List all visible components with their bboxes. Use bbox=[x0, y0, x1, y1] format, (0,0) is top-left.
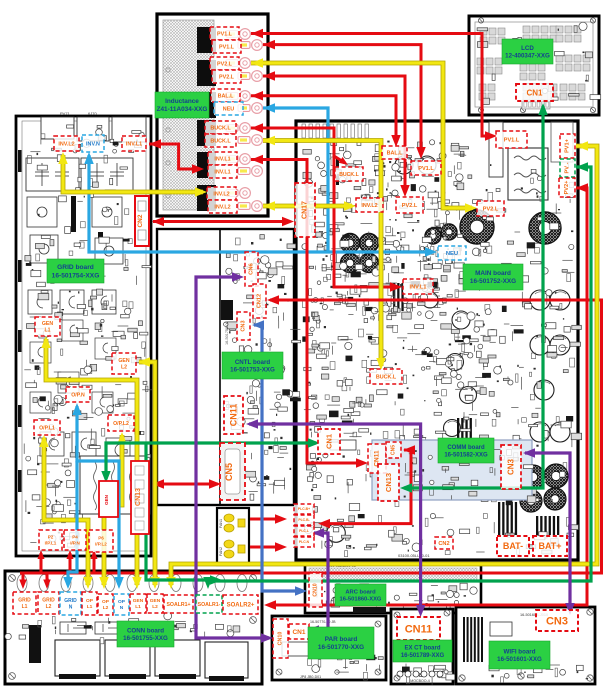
COMM board green label bbox=[438, 438, 494, 463]
svg-text:OP: OP bbox=[102, 599, 110, 605]
svg-text:CN11: CN11 bbox=[229, 404, 239, 427]
wire GRID O/P.N to CONN OP N and GRID N cyan bbox=[77, 406, 119, 585]
wire GRID O/P.L2 to CONN OP L2 yellow bbox=[104, 435, 122, 585]
COMM board connector CN3 bbox=[501, 445, 521, 489]
svg-text:CNTL board: CNTL board bbox=[235, 359, 271, 366]
MAIN board electrolytic capacitors bbox=[530, 290, 550, 310]
inductance labels INV.L1 pair bbox=[208, 152, 237, 165]
CONN board outline 16-501755-XXG bbox=[5, 571, 262, 684]
svg-text:CN6: CN6 bbox=[249, 262, 255, 274]
MAIN board barcode bars bbox=[498, 502, 500, 535]
inductance ring terminals bbox=[226, 31, 238, 38]
svg-text:16-501752-XXG: 16-501752-XXG bbox=[470, 278, 516, 285]
svg-text:PV2.L: PV2.L bbox=[217, 61, 233, 67]
svg-text:CN3: CN3 bbox=[507, 458, 516, 475]
svg-text:PLC.L: PLC.L bbox=[299, 529, 309, 533]
svg-text:GRID: GRID bbox=[42, 598, 55, 604]
FAN connector box bbox=[217, 508, 249, 565]
svg-text:12-400347-XXG: 12-400347-XXG bbox=[505, 53, 550, 60]
CONN board label OP N bbox=[114, 594, 129, 615]
svg-text:16-501755-XXG: 16-501755-XXG bbox=[123, 635, 168, 642]
wire CNTL CN12 to right side red bbox=[20, 300, 602, 573]
inductance labels BUCK.L pair bbox=[205, 121, 236, 134]
GRID board label O/P.N bbox=[66, 387, 90, 402]
svg-text:I/P.N: I/P.N bbox=[70, 541, 80, 546]
svg-text:GRID board: GRID board bbox=[57, 264, 94, 271]
wire BUCK.L terminal-a to main BUCK.L and main INV.L1 red bbox=[251, 128, 398, 287]
MAIN board transformer bbox=[508, 148, 548, 200]
svg-text:L2: L2 bbox=[152, 604, 158, 610]
svg-text:L1: L1 bbox=[44, 328, 50, 334]
svg-text:BAT+: BAT+ bbox=[538, 541, 561, 551]
wire FAN1 to main red bbox=[250, 518, 283, 521]
MAIN board heatsink slots top bbox=[302, 124, 305, 138]
LCD connector CN1 bbox=[516, 84, 553, 101]
svg-text:PV1.L: PV1.L bbox=[504, 137, 520, 143]
ARC board green label bbox=[335, 584, 386, 606]
GRID board connector CN2 bbox=[135, 196, 149, 246]
MAIN board label PV1+ bbox=[560, 134, 575, 158]
wire CNTL CN3 to ARC CN10 steel blue bbox=[254, 325, 303, 591]
svg-text:INV.L1: INV.L1 bbox=[214, 156, 230, 162]
svg-text:L2: L2 bbox=[103, 605, 109, 611]
svg-text:CN5: CN5 bbox=[224, 463, 234, 481]
MAIN board green label bbox=[463, 264, 523, 290]
GRID board outline 16-501754-XXG bbox=[16, 116, 151, 556]
svg-text:GEN: GEN bbox=[118, 358, 129, 364]
svg-text:PV1.L: PV1.L bbox=[418, 166, 434, 172]
svg-text:L2: L2 bbox=[46, 604, 52, 610]
svg-text:BUCK.L: BUCK.L bbox=[376, 374, 397, 380]
svg-text:16-501754-XXG: 16-501754-XXG bbox=[52, 272, 100, 279]
MAIN board label PV2.L b bbox=[477, 201, 504, 216]
svg-text:INV.N: INV.N bbox=[86, 141, 100, 147]
wire NEU net cyan bbox=[263, 108, 328, 252]
wire GRID CN2 to main CN17 red bbox=[153, 220, 290, 223]
CONN board label SOALR1+ bbox=[164, 595, 193, 613]
wire CNTL CN11 to EX CT CN11 purple bbox=[249, 424, 421, 613]
svg-text:16-50770-00 JB: 16-50770-00 JB bbox=[310, 620, 336, 624]
svg-text:L2: L2 bbox=[121, 365, 127, 371]
MAIN board label BAL.L bbox=[382, 146, 407, 159]
svg-text:INV.L1: INV.L1 bbox=[214, 169, 230, 175]
svg-text:SOALR2+: SOALR2+ bbox=[227, 603, 255, 609]
svg-text:NEU: NEU bbox=[223, 106, 234, 112]
svg-text:16-501753-00: 16-501753-00 bbox=[225, 321, 229, 345]
CNTL board connector CN5 bbox=[220, 443, 245, 500]
svg-text:INV.L2: INV.L2 bbox=[214, 204, 230, 210]
svg-text:INV.L1: INV.L1 bbox=[410, 284, 427, 290]
svg-text:PLC.N: PLC.N bbox=[299, 540, 310, 544]
wire LCD CN1 to COMM CN13 green bbox=[404, 106, 543, 488]
svg-text:16-501770-XXG: 16-501770-XXG bbox=[318, 644, 364, 651]
CONN board label SOALR1- bbox=[196, 595, 222, 613]
svg-text:16-501601-XXG: 16-501601-XXG bbox=[497, 656, 542, 663]
svg-text:PV2.L: PV2.L bbox=[402, 203, 418, 209]
GRID board label GEN L1 bbox=[35, 317, 60, 336]
svg-text:PV2+: PV2+ bbox=[564, 180, 570, 195]
MAIN board PLC connector group bbox=[294, 504, 314, 514]
GRID board label INV.L2 bbox=[54, 136, 79, 151]
inductance board hatched strip bbox=[163, 20, 214, 210]
svg-text:PV1+: PV1+ bbox=[565, 138, 571, 153]
svg-text:GEN: GEN bbox=[104, 494, 109, 505]
svg-text:CN13: CN13 bbox=[384, 473, 393, 492]
MAIN board label PV- bbox=[560, 159, 575, 177]
svg-text:GEN: GEN bbox=[150, 598, 161, 604]
GRID board label P2 I/P.L1 bbox=[39, 530, 62, 550]
wire PV2.L terminal-b to main PV2.L red bbox=[263, 76, 405, 193]
svg-text:I/P.L2: I/P.L2 bbox=[95, 542, 107, 547]
svg-text:OP: OP bbox=[86, 598, 94, 604]
MAIN board label PV2.L a bbox=[396, 197, 423, 213]
wire BUCK.L terminal-b to main BUCK.L yellow bbox=[263, 141, 381, 367]
svg-text:PLC.B-: PLC.B- bbox=[298, 518, 309, 522]
svg-text:O/P.L2: O/P.L2 bbox=[113, 421, 129, 427]
svg-text:PV2.L: PV2.L bbox=[483, 206, 499, 212]
svg-text:CN17: CN17 bbox=[302, 201, 309, 219]
wire FAN2 to main red bbox=[250, 546, 283, 549]
wire PV1.L terminal-b to main PV1.L red bbox=[263, 45, 421, 155]
CONN board top oval pads bbox=[17, 575, 27, 592]
svg-text:CN10: CN10 bbox=[313, 583, 319, 596]
LCD CN1 connector pads bbox=[522, 100, 550, 109]
svg-text:L1: L1 bbox=[135, 604, 141, 610]
svg-text:I/P.L1: I/P.L1 bbox=[45, 541, 57, 546]
CNTL board connector CN11 bbox=[224, 396, 243, 434]
svg-text:GRID: GRID bbox=[18, 598, 31, 604]
GRID board inner components bbox=[22, 121, 146, 551]
LCD board outline 12-400347-XXG bbox=[469, 16, 599, 115]
MAIN board label PV1.L b bbox=[496, 131, 527, 148]
wire main PV1+ to CONN SOALR1+ yellow bbox=[171, 146, 597, 585]
svg-text:Z41-11A034-XXG: Z41-11A034-XXG bbox=[157, 106, 208, 113]
inductance labels INV.L2 pair bbox=[207, 187, 236, 200]
svg-text:P6: P6 bbox=[98, 536, 104, 541]
CNTL board connector CN12 bbox=[253, 284, 266, 318]
GRID board label P6 I/P.L2 bbox=[89, 530, 113, 552]
wire GRID INV.L2 to inductance INV.L2 yellow bbox=[63, 155, 203, 192]
wire GRID O/P.L1 to CONN OP L1 yellow bbox=[44, 438, 88, 585]
CONN board label OP L2 bbox=[98, 594, 113, 615]
svg-text:CONN board: CONN board bbox=[127, 627, 164, 634]
svg-text:BAT-: BAT- bbox=[503, 541, 523, 551]
WIFI board outline 16-501601-XXG bbox=[456, 607, 595, 684]
wire CNTL CN5 to GRID CN13 red bbox=[154, 483, 218, 486]
CONN board label OP L1 bbox=[82, 592, 97, 615]
svg-text:GRID: GRID bbox=[64, 598, 77, 604]
CONN board relays bbox=[55, 640, 100, 676]
MAIN board label PV1.L a bbox=[411, 161, 441, 175]
MAIN board label BUCK.L b bbox=[370, 369, 402, 384]
svg-text:6J70: 6J70 bbox=[88, 111, 97, 116]
svg-text:PLC.B+: PLC.B+ bbox=[298, 507, 310, 511]
CONN board label SOALR2+ bbox=[223, 595, 258, 614]
COMM board connector CN5 bbox=[386, 442, 401, 458]
wire COMM CN3 to WIFI CN3 purple bbox=[525, 453, 570, 611]
PAR board connector CN10 bbox=[273, 619, 288, 658]
svg-text:L1: L1 bbox=[22, 604, 28, 610]
svg-text:PV -: PV - bbox=[565, 162, 571, 173]
svg-text:GEN: GEN bbox=[42, 321, 53, 327]
GRID board transformer bbox=[80, 456, 150, 514]
svg-text:CN10: CN10 bbox=[278, 632, 284, 646]
svg-text:OP: OP bbox=[118, 599, 126, 605]
svg-text:INV.L2: INV.L2 bbox=[58, 141, 74, 147]
GRID board label GEN L2 bbox=[112, 353, 136, 374]
svg-text:INV.L2: INV.L2 bbox=[361, 203, 377, 209]
svg-text:CN2: CN2 bbox=[137, 214, 144, 227]
CNTL board connector CN6 bbox=[245, 252, 258, 286]
wire main PLC to PAR CN1 purple bbox=[311, 533, 328, 630]
svg-text:16-501753-XXG: 16-501753-XXG bbox=[230, 367, 275, 374]
wire COMM CN5 to main PLC red bbox=[322, 450, 411, 524]
svg-text:O/P.L1: O/P.L1 bbox=[39, 425, 55, 431]
wire GRID GEN L2 to CONN GEN L2 yellow bbox=[139, 362, 155, 585]
svg-text:CN13: CN13 bbox=[135, 488, 142, 506]
GRID board GEN connector box bbox=[99, 481, 118, 517]
svg-text:JP8 JB0-D01: JP8 JB0-D01 bbox=[300, 675, 321, 679]
PAR board connector CN1 bbox=[289, 624, 309, 639]
svg-text:03100-05LL00-01: 03100-05LL00-01 bbox=[398, 553, 430, 558]
svg-text:P4: P4 bbox=[72, 535, 78, 540]
MAIN board label BAT- bbox=[497, 536, 529, 556]
WIFI board barcode bbox=[463, 617, 465, 662]
CONN board label GEN L1 bbox=[130, 594, 146, 613]
svg-text:O/P.N: O/P.N bbox=[71, 392, 85, 398]
svg-text:INV.L1: INV.L1 bbox=[126, 141, 142, 147]
svg-text:CN1: CN1 bbox=[526, 88, 543, 97]
PAR board green label bbox=[308, 627, 374, 659]
svg-text:16-501789-XXG: 16-501789-XXG bbox=[401, 653, 445, 659]
CNTL board components bbox=[224, 235, 301, 501]
svg-text:BUCK.L: BUCK.L bbox=[339, 172, 359, 178]
CNTL board outline 16-501753-XXG bbox=[157, 229, 294, 505]
inductance labels PV1.L pair bbox=[210, 27, 239, 40]
svg-text:P2: P2 bbox=[48, 535, 54, 540]
COMM board overlay 16-501582-XXG bbox=[372, 440, 532, 500]
ARC board connector CN10 bbox=[309, 573, 322, 607]
COMM board connector CN1 bbox=[318, 429, 340, 454]
svg-text:ARC board: ARC board bbox=[345, 589, 376, 595]
svg-text:BAL.L: BAL.L bbox=[387, 150, 404, 156]
PAR board outline 16-501770-XXG bbox=[272, 616, 386, 680]
svg-text:MAIN board: MAIN board bbox=[475, 270, 511, 277]
svg-text:N: N bbox=[120, 605, 124, 611]
svg-text:SOALR1+: SOALR1+ bbox=[166, 602, 190, 608]
wire GRID INV.L1 to inductance INV.L1 red bbox=[149, 144, 200, 169]
MAIN board connector CN17 bbox=[295, 183, 315, 237]
EX CT board green label bbox=[393, 640, 452, 662]
svg-text:CN1: CN1 bbox=[292, 629, 305, 636]
GRID board label O/P.L2 bbox=[108, 415, 134, 431]
svg-text:WIFI board: WIFI board bbox=[504, 648, 536, 655]
svg-text:CN3: CN3 bbox=[241, 320, 247, 331]
GRID board label O/P.L1 bbox=[34, 420, 60, 435]
svg-text:BAL.L: BAL.L bbox=[218, 93, 235, 99]
EX CT board connector CN11 bbox=[397, 617, 440, 640]
svg-text:GEN: GEN bbox=[133, 598, 144, 604]
svg-text:EX CT board: EX CT board bbox=[404, 645, 440, 651]
inductance board outline Z41-11A034-XXG bbox=[157, 14, 268, 216]
svg-text:BUCK.L: BUCK.L bbox=[210, 138, 231, 144]
red feeders to P2 P4 P6 bbox=[40, 553, 43, 573]
svg-text:16-501582-XXG: 16-501582-XXG bbox=[444, 452, 488, 458]
inductance labels PV2.L pair bbox=[210, 57, 239, 70]
svg-text:16-501860-XXG: 16-501860-XXG bbox=[340, 597, 382, 603]
svg-text:COMM board: COMM board bbox=[447, 445, 485, 451]
inductance label BAL.L bbox=[211, 89, 240, 102]
svg-text:NEU: NEU bbox=[446, 251, 458, 257]
MAIN board label INV.L1 bbox=[403, 279, 433, 294]
WIFI board green label bbox=[489, 641, 550, 669]
CONN board label GEN L2 bbox=[147, 594, 163, 613]
svg-text:Inductance: Inductance bbox=[165, 98, 199, 105]
wire CNTL CN6 to PAR CN10 purple bbox=[196, 277, 269, 638]
svg-text:SOALR1-: SOALR1- bbox=[198, 602, 221, 608]
wire main PV2+ to CONN SOALR2+ red bbox=[268, 188, 587, 605]
svg-text:PV1.L: PV1.L bbox=[219, 44, 235, 50]
svg-text:FAN1: FAN1 bbox=[219, 519, 223, 528]
CONN board green label bbox=[117, 621, 174, 647]
MAIN board toroid inductors bbox=[460, 210, 494, 244]
MAIN board label NEU bbox=[438, 246, 466, 260]
MAIN board label BUCK.L a bbox=[335, 167, 363, 181]
inductance core blocks bbox=[197, 27, 216, 53]
svg-text:MOCBOO-4: MOCBOO-4 bbox=[410, 679, 430, 683]
CONN board label GRID L1 bbox=[13, 592, 36, 614]
wire INV.L2 terminal-b to main INV.L2 yellow bbox=[263, 204, 352, 209]
fan symbols FAN1 FAN2 bbox=[224, 514, 234, 522]
EX CT board outline 16-501789-XXG bbox=[391, 609, 453, 684]
svg-text:INV.L2: INV.L2 bbox=[213, 191, 229, 197]
svg-text:CN5: CN5 bbox=[391, 445, 397, 455]
CONN board label GRID N bbox=[60, 592, 81, 615]
ARC board outline 16-501860-XXG bbox=[305, 564, 481, 613]
svg-text:L1: L1 bbox=[87, 604, 93, 610]
red feeders to CONN GRID L1 GRID L2 bbox=[22, 573, 25, 585]
CONN board label GRID L2 bbox=[38, 592, 59, 614]
wire PV1.L terminal-a to main PV1.L red bbox=[251, 34, 493, 137]
COMM board connector CN11 bbox=[368, 444, 386, 473]
inductance label NEU bbox=[214, 102, 243, 115]
COMM board connector CN13 bbox=[378, 464, 399, 501]
wire INV.L1 terminal-a to COMM CN11 red bbox=[251, 160, 364, 464]
svg-text:PV71: PV71 bbox=[60, 111, 71, 116]
LCD board green label bbox=[502, 39, 553, 64]
svg-text:CN1: CN1 bbox=[325, 434, 334, 449]
wire BAL.L terminal to main BAL.L red bbox=[251, 96, 396, 143]
svg-text:CN2: CN2 bbox=[438, 541, 449, 547]
GRID board green label bbox=[47, 259, 104, 283]
wire PV2.L terminal-a to main PV2.L yellow bbox=[251, 63, 472, 208]
LCD board components bbox=[477, 26, 590, 100]
inductance board green label bbox=[155, 92, 209, 118]
wire GRID GEN L1 to CONN GEN L1 yellow bbox=[46, 339, 137, 585]
wire COMM CN1 to GRID GEN box green bbox=[106, 443, 316, 479]
MAIN board label CN2 bbox=[435, 537, 453, 549]
svg-text:BUCK.L: BUCK.L bbox=[210, 125, 231, 131]
svg-text:CN12: CN12 bbox=[257, 294, 263, 308]
svg-text:PAR board: PAR board bbox=[325, 636, 358, 643]
CNTL board green label bbox=[222, 352, 283, 379]
GRID board label INV.L1 bbox=[122, 136, 146, 151]
svg-text:PV2.L: PV2.L bbox=[219, 74, 235, 80]
MAIN board label INV.L2 bbox=[356, 198, 383, 212]
wire main PV- to CONN SOALR1- green bbox=[208, 167, 591, 585]
WIFI board connector CN3 bbox=[536, 610, 578, 631]
CNTL board connector CN3 bbox=[237, 312, 250, 340]
GRID board label P4 I/P.N bbox=[64, 530, 86, 550]
MAIN board outline 16-501752-XXG bbox=[296, 121, 578, 560]
svg-text:N: N bbox=[69, 604, 73, 610]
MAIN board label PV2+ bbox=[559, 178, 575, 197]
svg-text:PV1.L: PV1.L bbox=[217, 31, 233, 37]
GRID board connector CN13 bbox=[131, 461, 149, 534]
svg-text:FAN2: FAN2 bbox=[219, 547, 223, 556]
svg-text:CN3: CN3 bbox=[546, 615, 568, 627]
GRID board label INV.N bbox=[82, 135, 104, 152]
MAIN board label BAT+ bbox=[533, 536, 567, 556]
svg-text:LCD: LCD bbox=[521, 45, 534, 52]
svg-text:CN11: CN11 bbox=[405, 623, 433, 635]
